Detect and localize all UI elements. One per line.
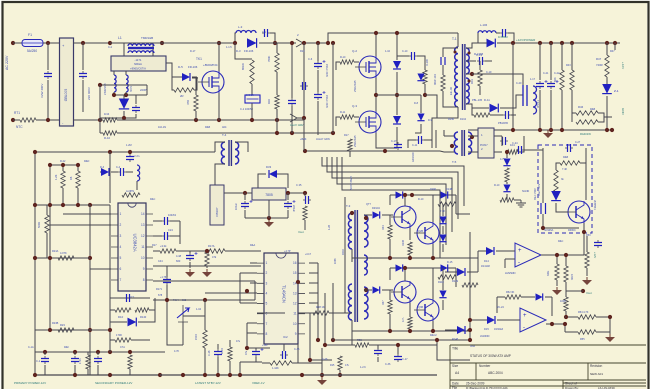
node	[88, 256, 92, 260]
svg-text:R240: R240	[448, 118, 455, 121]
wire	[409, 255, 411, 258]
title text	[470, 354, 511, 358]
diode D19	[441, 264, 448, 271]
label R47	[610, 50, 615, 53]
node	[33, 203, 37, 207]
svg-text:R52 3K: R52 3K	[506, 291, 515, 294]
svg-text:100uF: 100uF	[235, 202, 238, 210]
wire	[309, 313, 311, 360]
svg-text:10: 10	[141, 256, 145, 260]
svg-text:100K: 100K	[570, 274, 574, 280]
svg-text:R&B: R&B	[590, 108, 595, 111]
wire	[113, 71, 115, 75]
svg-text:Number: Number	[479, 364, 491, 368]
wire	[561, 43, 563, 70]
svg-text:Vout: Vout	[470, 345, 475, 348]
capacitor C21	[118, 168, 126, 176]
wire	[580, 162, 586, 164]
label R380C	[568, 229, 576, 232]
wire	[124, 114, 136, 118]
wire	[442, 300, 444, 310]
inductor L4	[478, 31, 496, 33]
wire	[247, 347, 270, 349]
node	[48, 328, 52, 332]
node	[388, 329, 392, 333]
diode D11	[487, 39, 496, 48]
node	[383, 149, 387, 153]
label R171	[156, 288, 163, 291]
inductor L5	[533, 86, 537, 114]
svg-text:1-26: 1-26	[328, 224, 331, 230]
wire	[35, 204, 90, 206]
svg-text:C-26: C-26	[322, 358, 328, 361]
wire	[304, 220, 306, 230]
svg-text:110-1N: 110-1N	[158, 126, 166, 129]
label 1N4	[104, 112, 110, 116]
node	[128, 350, 132, 354]
wire	[74, 352, 76, 355]
diode D7	[393, 116, 401, 124]
label Vout	[586, 291, 592, 295]
resistor R33	[408, 242, 412, 255]
svg-text:Date: Date	[452, 382, 459, 386]
wire	[494, 151, 502, 153]
label R46	[578, 105, 584, 109]
transistor Q4	[391, 206, 416, 228]
svg-text:R55: R55	[580, 338, 585, 341]
wire	[286, 192, 305, 194]
label R55	[580, 338, 585, 341]
wire	[270, 33, 275, 43]
resistor R66	[578, 330, 596, 334]
label R23A	[52, 250, 59, 253]
svg-text:4.48: 4.48	[176, 254, 182, 258]
node	[267, 216, 271, 220]
wire	[166, 63, 172, 77]
node	[468, 318, 472, 322]
wire	[543, 214, 579, 228]
label D14	[484, 259, 489, 263]
svg-text:7.4K: 7.4K	[562, 168, 567, 171]
wire	[339, 370, 341, 375]
label R52 3K	[506, 291, 515, 294]
label C-26	[322, 358, 328, 361]
svg-text:R6: R6	[69, 176, 73, 180]
node	[108, 373, 112, 377]
resistor R6	[61, 171, 65, 188]
wire	[354, 116, 359, 118]
wire IC2 pin	[240, 272, 257, 274]
label T&GR	[536, 100, 540, 108]
node	[610, 128, 614, 132]
wire Q1 source	[218, 93, 220, 120]
svg-text:1.2M: 1.2M	[126, 144, 132, 147]
wire	[445, 329, 457, 331]
svg-text:5A/250: 5A/250	[27, 49, 37, 53]
label 678	[158, 294, 163, 297]
node	[511, 128, 515, 132]
svg-text:STATUS OF 300W ATX AMP: STATUS OF 300W ATX AMP	[470, 354, 511, 358]
wire	[325, 344, 355, 346]
node	[564, 253, 568, 257]
svg-text:5: 5	[266, 302, 268, 306]
wire	[35, 151, 215, 153]
svg-text:C-1A: C-1A	[28, 346, 34, 349]
capacitor C4	[262, 29, 270, 37]
resistor R4	[174, 88, 194, 92]
wire	[235, 142, 248, 152]
node	[73, 350, 77, 354]
wire	[565, 331, 578, 333]
wire	[35, 351, 165, 353]
resistor R45	[570, 70, 574, 90]
wire	[556, 255, 558, 264]
diode D6	[393, 61, 401, 69]
label R-106	[426, 59, 429, 66]
svg-text:R&B: R&B	[563, 156, 568, 159]
wire	[424, 140, 432, 148]
transformer T5 primary	[454, 132, 458, 154]
diode D15	[373, 211, 380, 218]
wire bus A	[303, 43, 305, 118]
label +B/Rt	[300, 138, 307, 141]
svg-text:3: 3	[120, 234, 122, 238]
node bus	[613, 41, 617, 45]
svg-text:100R: 100R	[560, 300, 566, 303]
wire	[468, 135, 478, 137]
node	[96, 350, 100, 354]
wire Q3 source	[376, 133, 397, 148]
node	[331, 338, 335, 342]
label C-27	[575, 141, 581, 144]
wire DC+ from bridge	[73, 42, 117, 44]
wire	[317, 70, 319, 92]
wire	[565, 316, 578, 318]
wire	[397, 345, 399, 354]
label D-5	[178, 65, 183, 69]
label D:\Backup\CH.D.751XXXX.ddb	[466, 386, 508, 389]
wire	[77, 188, 79, 205]
node	[76, 163, 80, 167]
svg-text:R12: R12	[300, 50, 305, 53]
wire	[389, 215, 391, 225]
node	[395, 31, 399, 35]
resistor R69	[554, 170, 558, 192]
wire	[13, 42, 22, 44]
node	[549, 128, 553, 132]
svg-text:R16: R16	[267, 99, 271, 104]
svg-text:R15: R15	[330, 364, 335, 367]
svg-text:C-27: C-27	[575, 141, 581, 144]
label C-6	[308, 57, 313, 61]
svg-text:6: 6	[120, 267, 122, 271]
caption LATEST STBY	[195, 381, 221, 385]
label L-3	[238, 25, 243, 29]
wire	[504, 259, 506, 268]
capacitor C40	[163, 277, 171, 285]
wire	[303, 118, 305, 135]
diode D21	[439, 291, 446, 298]
label 663	[176, 259, 181, 263]
wire	[565, 282, 567, 291]
diode D14	[441, 191, 448, 198]
wire	[382, 289, 393, 291]
wire	[479, 61, 481, 70]
wire	[432, 268, 434, 288]
resistor R24	[58, 328, 74, 332]
svg-text:FL1/965: FL1/965	[474, 53, 484, 56]
label 5A/250	[27, 49, 37, 53]
label File	[452, 386, 457, 389]
wire	[424, 84, 426, 95]
wire	[565, 255, 567, 266]
node	[296, 280, 300, 284]
svg-text:C-36: C-36	[385, 363, 391, 366]
wire	[303, 42, 330, 44]
label D-11	[484, 98, 490, 102]
svg-text:1-1.5: 1-1.5	[226, 46, 232, 49]
label 1-10	[385, 50, 391, 53]
svg-text:TL494CN: TL494CN	[282, 285, 287, 303]
node	[203, 373, 207, 377]
label R&B	[205, 126, 210, 129]
node	[302, 41, 306, 45]
wire	[146, 85, 148, 95]
svg-text:D-15: D-15	[447, 261, 453, 264]
node	[435, 338, 439, 342]
svg-text:C-21: C-21	[543, 72, 549, 75]
svg-text:D-3: D-3	[236, 49, 241, 53]
label 50K	[553, 77, 557, 82]
svg-text:1: 1	[266, 261, 268, 265]
wire	[125, 71, 127, 75]
wire secondary ground rail	[468, 129, 612, 131]
label Date	[452, 382, 459, 386]
svg-text:4: 4	[120, 245, 122, 249]
wire	[136, 181, 138, 190]
node	[33, 256, 37, 260]
label FR-106	[188, 65, 198, 69]
wire	[468, 151, 478, 153]
svg-text:+B/Rt: +B/Rt	[300, 138, 307, 141]
label PB1/065	[498, 121, 509, 125]
label C-2	[108, 46, 113, 49]
wire	[82, 43, 84, 70]
svg-text:LATEST STBY-12V: LATEST STBY-12V	[195, 381, 221, 385]
wire	[455, 277, 457, 287]
label +12V	[593, 252, 597, 258]
node	[243, 191, 247, 195]
wire	[586, 268, 588, 276]
capacitor C20	[500, 137, 508, 145]
node AC line L	[11, 41, 15, 45]
node	[423, 93, 427, 97]
label 170K	[79, 358, 82, 364]
wire	[506, 182, 508, 184]
label 17k	[345, 364, 350, 367]
label +8N60/P24	[203, 63, 218, 67]
resistor R26	[86, 355, 90, 369]
label C-19	[476, 53, 483, 57]
svg-text:R17: R17	[344, 134, 349, 137]
label 861/R	[241, 63, 245, 70]
svg-text:4: 4	[266, 291, 268, 295]
svg-text:+8965/C6T/A: +8965/C6T/A	[130, 67, 146, 71]
wire	[442, 244, 444, 252]
svg-text:+: +	[523, 313, 527, 319]
label +4.7P	[284, 250, 291, 253]
label R&B	[590, 108, 595, 111]
wire	[550, 43, 552, 80]
wire	[332, 283, 334, 340]
label R16	[267, 99, 271, 104]
wire	[235, 33, 236, 43]
wire	[435, 130, 437, 148]
resistor R50	[506, 150, 518, 154]
transformer T4 primary	[221, 142, 225, 164]
wire	[310, 359, 332, 361]
label Drawn By	[565, 386, 579, 389]
label R&B	[563, 156, 568, 159]
label L1	[118, 36, 122, 40]
svg-text:NEW A01: NEW A01	[590, 372, 603, 376]
node	[408, 329, 412, 333]
node	[48, 256, 52, 260]
svg-text:2C-24: 2C-24	[497, 306, 504, 309]
label 1-1.5	[226, 46, 232, 49]
wire Q2 drain	[375, 33, 377, 56]
wire IC1 pin6 net	[90, 268, 111, 270]
node	[323, 343, 327, 347]
svg-text:150R: 150R	[195, 334, 198, 340]
node	[108, 41, 112, 45]
label LM293D	[505, 271, 516, 275]
wire gate Q1	[192, 77, 198, 79]
svg-text:NR&A: NR&A	[134, 62, 142, 66]
node	[560, 128, 564, 132]
wire	[111, 171, 118, 173]
wire	[490, 114, 503, 116]
wire IC2 pin	[205, 292, 257, 294]
svg-text:-: -	[523, 325, 525, 331]
node	[165, 298, 169, 302]
svg-text:+C17: +C17	[305, 253, 312, 256]
wire	[153, 235, 162, 237]
svg-text:R47: R47	[610, 50, 615, 53]
capacitor C13	[500, 29, 508, 37]
winding dot	[364, 288, 368, 292]
wire DC- from bridge	[73, 119, 100, 121]
wire	[229, 340, 231, 347]
transformer T4 secondary	[235, 142, 239, 164]
svg-text:160R: 160R	[221, 348, 224, 354]
wire	[477, 33, 479, 43]
svg-text:C-10: C-10	[402, 50, 408, 53]
wire	[283, 344, 285, 351]
wire IC2 pin	[250, 262, 257, 264]
wire	[235, 43, 252, 59]
wire stage A top	[390, 194, 456, 196]
resistor R35	[388, 300, 392, 314]
svg-text:170K: 170K	[116, 333, 122, 337]
label C-36	[294, 348, 300, 351]
wire IC2 pin	[250, 282, 257, 284]
wire	[100, 171, 101, 173]
svg-text:UC3842A: UC3842A	[133, 234, 138, 252]
label R41	[470, 79, 474, 84]
wire	[87, 369, 89, 375]
wire	[551, 297, 553, 316]
winding dot	[364, 216, 368, 220]
node	[550, 322, 554, 326]
wire	[566, 290, 583, 292]
label 47k	[212, 255, 217, 259]
label 104	[510, 143, 515, 147]
svg-text:R-10: R-10	[494, 184, 500, 187]
zener diode ZD4	[503, 185, 510, 192]
svg-text:1066: 1066	[334, 258, 337, 264]
node	[320, 373, 324, 377]
transistor Q7	[414, 299, 439, 321]
label 26-Dec-2009	[466, 382, 485, 386]
node	[374, 93, 378, 97]
label A04	[222, 126, 227, 129]
svg-text:C-2: C-2	[108, 46, 113, 49]
wire	[443, 91, 458, 107]
label GND	[621, 108, 625, 116]
label IC1	[130, 295, 135, 299]
wire IC2 pin	[247, 322, 257, 324]
capacitor CX1	[44, 71, 52, 79]
label R149	[452, 280, 459, 283]
resistor R61	[555, 264, 559, 280]
wire stage A emitter rail	[352, 257, 478, 259]
transistor Q8	[565, 201, 590, 223]
label D-8	[414, 102, 419, 105]
op-amp U5B	[520, 308, 546, 332]
node	[33, 150, 37, 154]
wire	[324, 293, 326, 345]
label C-36	[385, 363, 391, 366]
wire	[109, 340, 111, 352]
svg-text:16: 16	[293, 261, 297, 265]
wire route 1	[322, 157, 464, 206]
label D10	[118, 315, 124, 319]
wire	[255, 357, 257, 362]
svg-text:R46: R46	[578, 105, 584, 109]
svg-text:D-10: D-10	[418, 198, 424, 201]
svg-text:4.07K: 4.07K	[60, 251, 67, 255]
label 2	[481, 147, 483, 151]
label DB107	[215, 207, 219, 217]
svg-text:7: 7	[266, 322, 268, 326]
svg-text:D-9: D-9	[428, 119, 433, 122]
label 1N4148	[481, 265, 490, 268]
node	[216, 373, 220, 377]
capacitor C6	[300, 82, 308, 90]
wire	[545, 254, 566, 256]
svg-text:R171: R171	[156, 288, 163, 291]
resistor R57	[348, 139, 352, 151]
svg-text:R-11: R-11	[340, 111, 346, 114]
node	[73, 373, 77, 377]
svg-text:C-1 100/50: C-1 100/50	[240, 107, 253, 111]
label R12	[300, 50, 305, 53]
svg-text:35uF 700V: 35uF 700V	[538, 183, 541, 196]
wire	[240, 361, 262, 363]
label F1	[28, 33, 32, 37]
diode D23	[487, 316, 495, 324]
